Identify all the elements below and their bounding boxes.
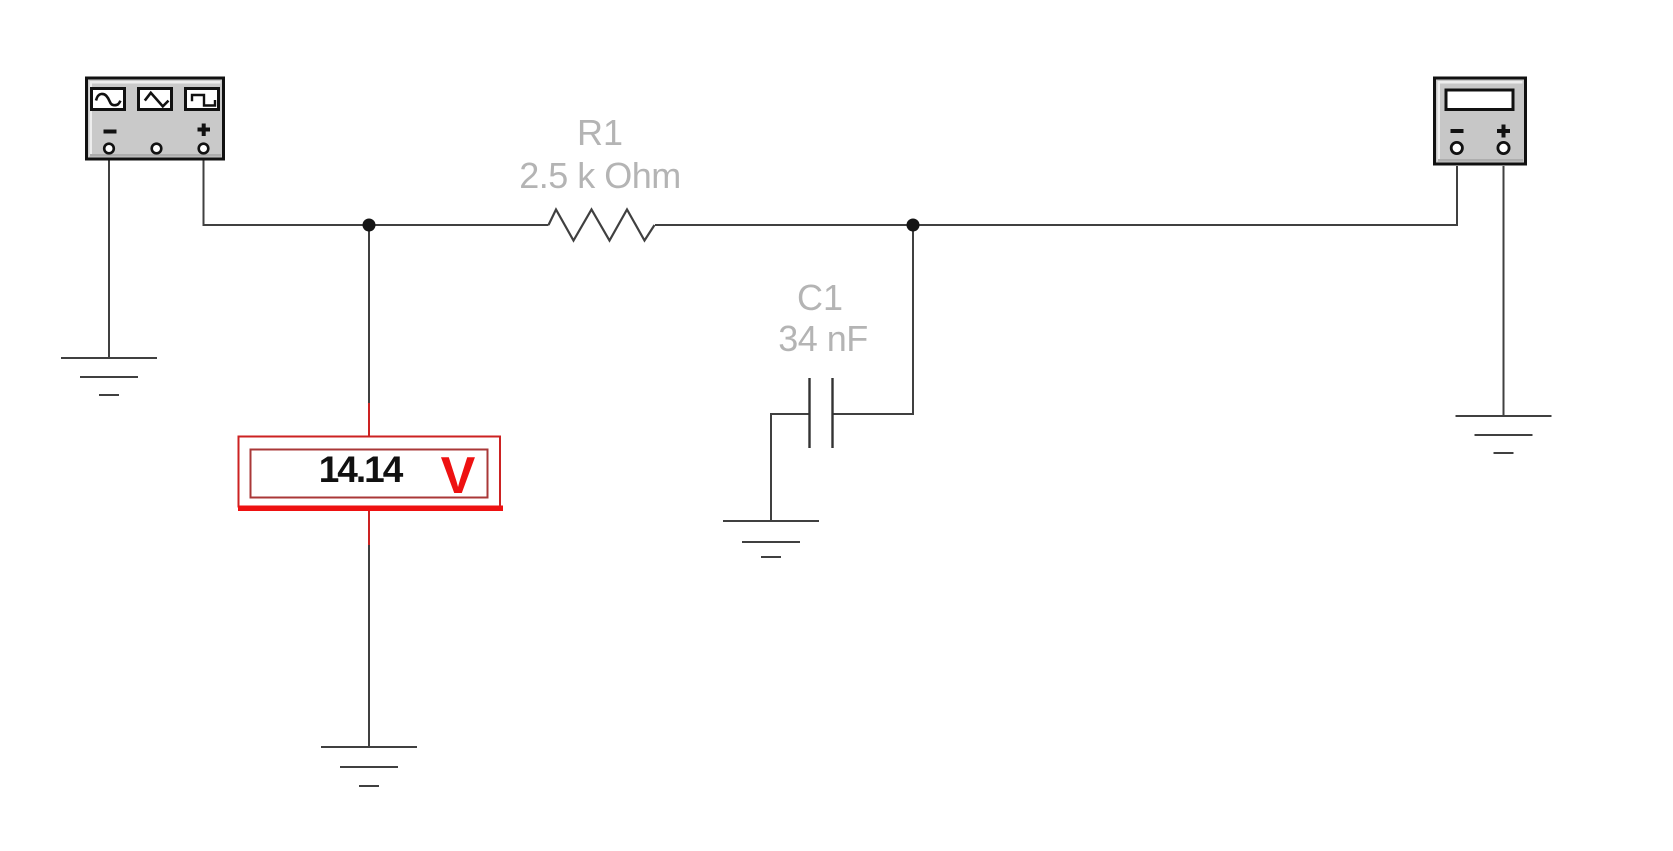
voltmeter inner frame: [251, 450, 488, 498]
voltmeter readout box: [238, 437, 503, 512]
plus label: [198, 124, 211, 137]
resistor R1: [549, 210, 655, 241]
wire: voltmeter probe red lead (top): [368, 403, 370, 437]
wire: voltmeter to ground (black part): [368, 545, 370, 747]
generator body: [87, 78, 224, 159]
plus terminal: [1498, 142, 1509, 153]
sine wave button: [92, 89, 125, 110]
wire: main net left segment (generator to R1): [203, 224, 549, 226]
svg-text:34 nF: 34 nF: [778, 318, 868, 359]
ground (generator minus): [61, 358, 157, 395]
wire: voltmeter probe red lead (bottom): [368, 510, 370, 546]
svg-text:2.5 k Ohm: 2.5 k Ohm: [519, 155, 681, 196]
wire: generator minus terminal to ground: [108, 160, 110, 358]
common terminal: [152, 144, 162, 154]
minus label: [104, 130, 117, 134]
wire: generator plus terminal down to main net: [203, 160, 205, 226]
wire: multimeter plus terminal to ground: [1503, 166, 1505, 416]
svg-text:V: V: [441, 447, 476, 505]
multimeter body: [1435, 78, 1526, 164]
minus terminal: [104, 144, 114, 154]
wire: node A down to voltmeter probe (black part): [368, 225, 370, 403]
ground (multimeter plus): [1456, 416, 1552, 453]
triangle wave button: [139, 89, 172, 110]
ground (voltmeter): [321, 747, 417, 786]
wire: node B down to capacitor branch: [834, 225, 914, 414]
minus terminal: [1451, 142, 1462, 153]
voltmeter red base bar: [238, 506, 503, 512]
multimeter display: [1446, 90, 1513, 110]
svg-text:14.14: 14.14: [319, 449, 404, 490]
voltmeter outer frame: [239, 437, 501, 507]
capacitor C1: [810, 378, 833, 448]
function generator: [87, 78, 224, 159]
plus terminal: [199, 144, 209, 154]
plus label: [1497, 125, 1510, 138]
multimeter: [1435, 78, 1526, 164]
svg-text:C1: C1: [797, 277, 843, 318]
minus label: [1451, 129, 1464, 133]
wire: capacitor left plate to ground branch: [771, 414, 809, 521]
node B junction dot: [907, 219, 920, 232]
ground (capacitor C1): [723, 521, 819, 557]
node A junction dot: [363, 219, 376, 232]
svg-text:R1: R1: [577, 112, 623, 153]
square wave button: [186, 89, 219, 110]
wire: main net right segment (R1 to multimeter): [655, 224, 1458, 226]
wire: multimeter minus terminal drop: [1456, 166, 1458, 226]
